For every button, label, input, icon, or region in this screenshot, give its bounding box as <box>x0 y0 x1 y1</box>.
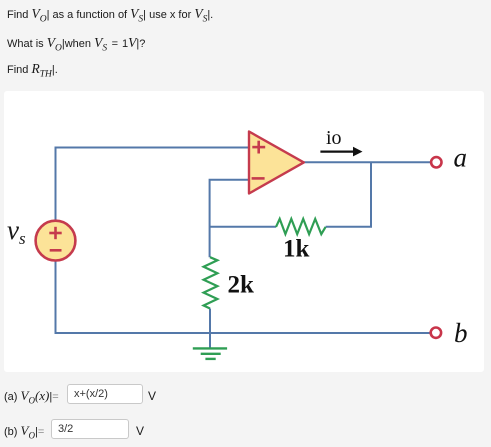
vs + sign <box>49 227 61 239</box>
wire: source top to op-amp + input <box>56 148 250 222</box>
wire: source bottom to terminal b <box>56 261 431 333</box>
svg-text:b: b <box>454 318 468 348</box>
voltage source vs <box>36 221 76 261</box>
wire: minus input to feedback node <box>210 180 249 257</box>
terminal a <box>431 157 441 167</box>
answer row (b) <box>4 423 44 441</box>
svg-text:io: io <box>326 127 342 149</box>
svg-text:vs: vs <box>7 215 26 248</box>
vs - sign <box>50 249 62 252</box>
op-amp - input sign <box>252 177 265 180</box>
op-amp U1 <box>249 132 304 194</box>
resistor 2k <box>204 257 218 308</box>
terminal b <box>431 328 441 338</box>
wire: op-amp output to terminal a <box>304 161 431 163</box>
input (b) <box>51 419 129 439</box>
current io arrow <box>320 147 362 157</box>
question line 2 <box>7 35 145 54</box>
wire: feedback row left segment <box>210 226 276 228</box>
op-amp + input sign <box>252 141 265 154</box>
svg-text:a: a <box>454 143 468 173</box>
wire: 2k bottom stub to ground <box>209 309 211 349</box>
question line 1 <box>7 6 213 25</box>
svg-text:2k: 2k <box>228 272 255 299</box>
answer row (a) <box>4 388 59 406</box>
resistor 1k <box>276 219 326 234</box>
circuit panel <box>4 91 484 372</box>
svg-text:1k: 1k <box>283 236 310 263</box>
question line 3 <box>7 61 58 80</box>
ground <box>193 348 227 359</box>
input (a) <box>67 384 143 404</box>
wire: feedback row right segment up to output <box>326 162 371 226</box>
